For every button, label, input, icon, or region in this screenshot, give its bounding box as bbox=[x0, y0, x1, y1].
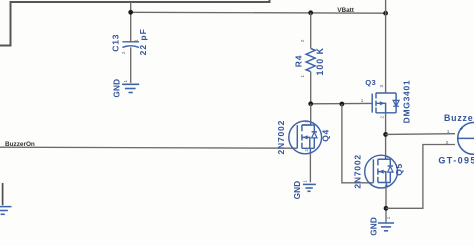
wire R4 pin 1 down to gate node bbox=[310, 72, 312, 104]
wire Q5 source down to ground node bbox=[385, 187, 387, 222]
svg-text:GND: GND bbox=[113, 79, 122, 98]
svg-text:GND: GND bbox=[370, 217, 379, 236]
wire VBatt feed entering from top and left edges (L-shaped hook) bbox=[0, 0, 270, 46]
ground symbol below Q5 bbox=[378, 223, 394, 231]
svg-text:R4: R4 bbox=[294, 55, 304, 67]
svg-text:2: 2 bbox=[304, 149, 309, 152]
node junction Q5 source / buzzer return bbox=[384, 206, 389, 211]
node junction VBatt/R4 bbox=[308, 10, 313, 15]
svg-text:22 pF: 22 pF bbox=[138, 28, 148, 55]
ground symbol at left edge (clipped) bbox=[0, 207, 11, 215]
svg-text:BuzzerOn: BuzzerOn bbox=[5, 141, 35, 148]
transistor Q4 2N7002 (NMOS in circle with body diode) bbox=[289, 121, 322, 154]
svg-text:+: + bbox=[460, 127, 464, 133]
svg-text:Q4: Q4 bbox=[320, 129, 330, 142]
node junction VBatt/C13 bbox=[128, 10, 133, 15]
wire from gate tee down and right to Q5 gate bbox=[342, 104, 374, 183]
svg-text:3: 3 bbox=[304, 120, 309, 123]
wire stub to ground at left edge bbox=[2, 183, 4, 205]
wire BuzzerOn net to Q4 gate bbox=[0, 147, 297, 148]
wire VBatt node down to R4 pin 2 bbox=[310, 13, 312, 49]
transistor Q3 DMG3401 (PMOS with body diode) bbox=[372, 93, 396, 113]
node junction VBatt/Q3 bbox=[383, 11, 388, 16]
resistor R4 bbox=[306, 48, 315, 71]
wire Q3 source down to Q5 drain bbox=[385, 113, 387, 156]
wire R4 node down to Q4 drain bbox=[310, 104, 312, 121]
svg-text:C13: C13 bbox=[110, 34, 120, 52]
node junction Q3/Q5/buzzer bbox=[383, 132, 388, 137]
svg-text:3: 3 bbox=[384, 155, 389, 158]
ground symbol below C13 bbox=[122, 84, 139, 92]
wire VBatt node down to Q3 drain bbox=[385, 0, 387, 93]
wire buzzer pin 2 return (right, down, left to ground node) bbox=[386, 145, 455, 209]
svg-text:1: 1 bbox=[303, 180, 308, 183]
svg-text:2N7002: 2N7002 bbox=[352, 154, 362, 189]
svg-text:GT-0950: GT-0950 bbox=[438, 155, 474, 165]
wire VBatt horizontal bus bbox=[131, 11, 386, 14]
svg-text:Buzzer: Buzzer bbox=[444, 113, 474, 123]
wire from hook down to C13 pin 1 bbox=[130, 2, 132, 42]
svg-text:2: 2 bbox=[380, 115, 385, 118]
svg-text:1: 1 bbox=[361, 98, 364, 103]
wire gate net from R4 node to Q3 gate bbox=[311, 102, 372, 104]
svg-text:2: 2 bbox=[300, 39, 305, 42]
svg-text:2: 2 bbox=[384, 184, 389, 187]
svg-text:1: 1 bbox=[300, 74, 305, 77]
ground symbol below Q4 bbox=[303, 184, 316, 191]
svg-text:1: 1 bbox=[133, 39, 138, 42]
node junction R4/Q4 drain bbox=[308, 101, 313, 106]
svg-text:100 K: 100 K bbox=[315, 47, 325, 75]
svg-text:3: 3 bbox=[379, 84, 384, 87]
svg-text:Q3: Q3 bbox=[365, 78, 376, 87]
svg-text:2: 2 bbox=[446, 140, 449, 146]
transistor Q5 2N7002 (NMOS in circle with body diode) bbox=[365, 155, 398, 188]
node junction gate tee bbox=[340, 102, 345, 107]
svg-text:VBatt: VBatt bbox=[337, 7, 355, 14]
svg-text:Q5: Q5 bbox=[394, 163, 404, 176]
svg-text:GND: GND bbox=[293, 181, 302, 200]
svg-text:1: 1 bbox=[386, 216, 391, 219]
svg-text:2: 2 bbox=[121, 51, 126, 54]
svg-text:DMG3401: DMG3401 bbox=[402, 80, 412, 124]
svg-text:2N7002: 2N7002 bbox=[276, 120, 286, 155]
buzzer BZ GT-0950 (body clipped at right edge) bbox=[458, 122, 474, 154]
capacitor C13 bbox=[122, 42, 139, 48]
svg-text:1: 1 bbox=[123, 79, 128, 82]
wire C13 pin 2 to ground bbox=[130, 47, 132, 83]
svg-text:1: 1 bbox=[447, 129, 450, 135]
wire to buzzer pin 1 bbox=[386, 133, 455, 136]
wire Q4 source to ground bbox=[309, 153, 311, 182]
